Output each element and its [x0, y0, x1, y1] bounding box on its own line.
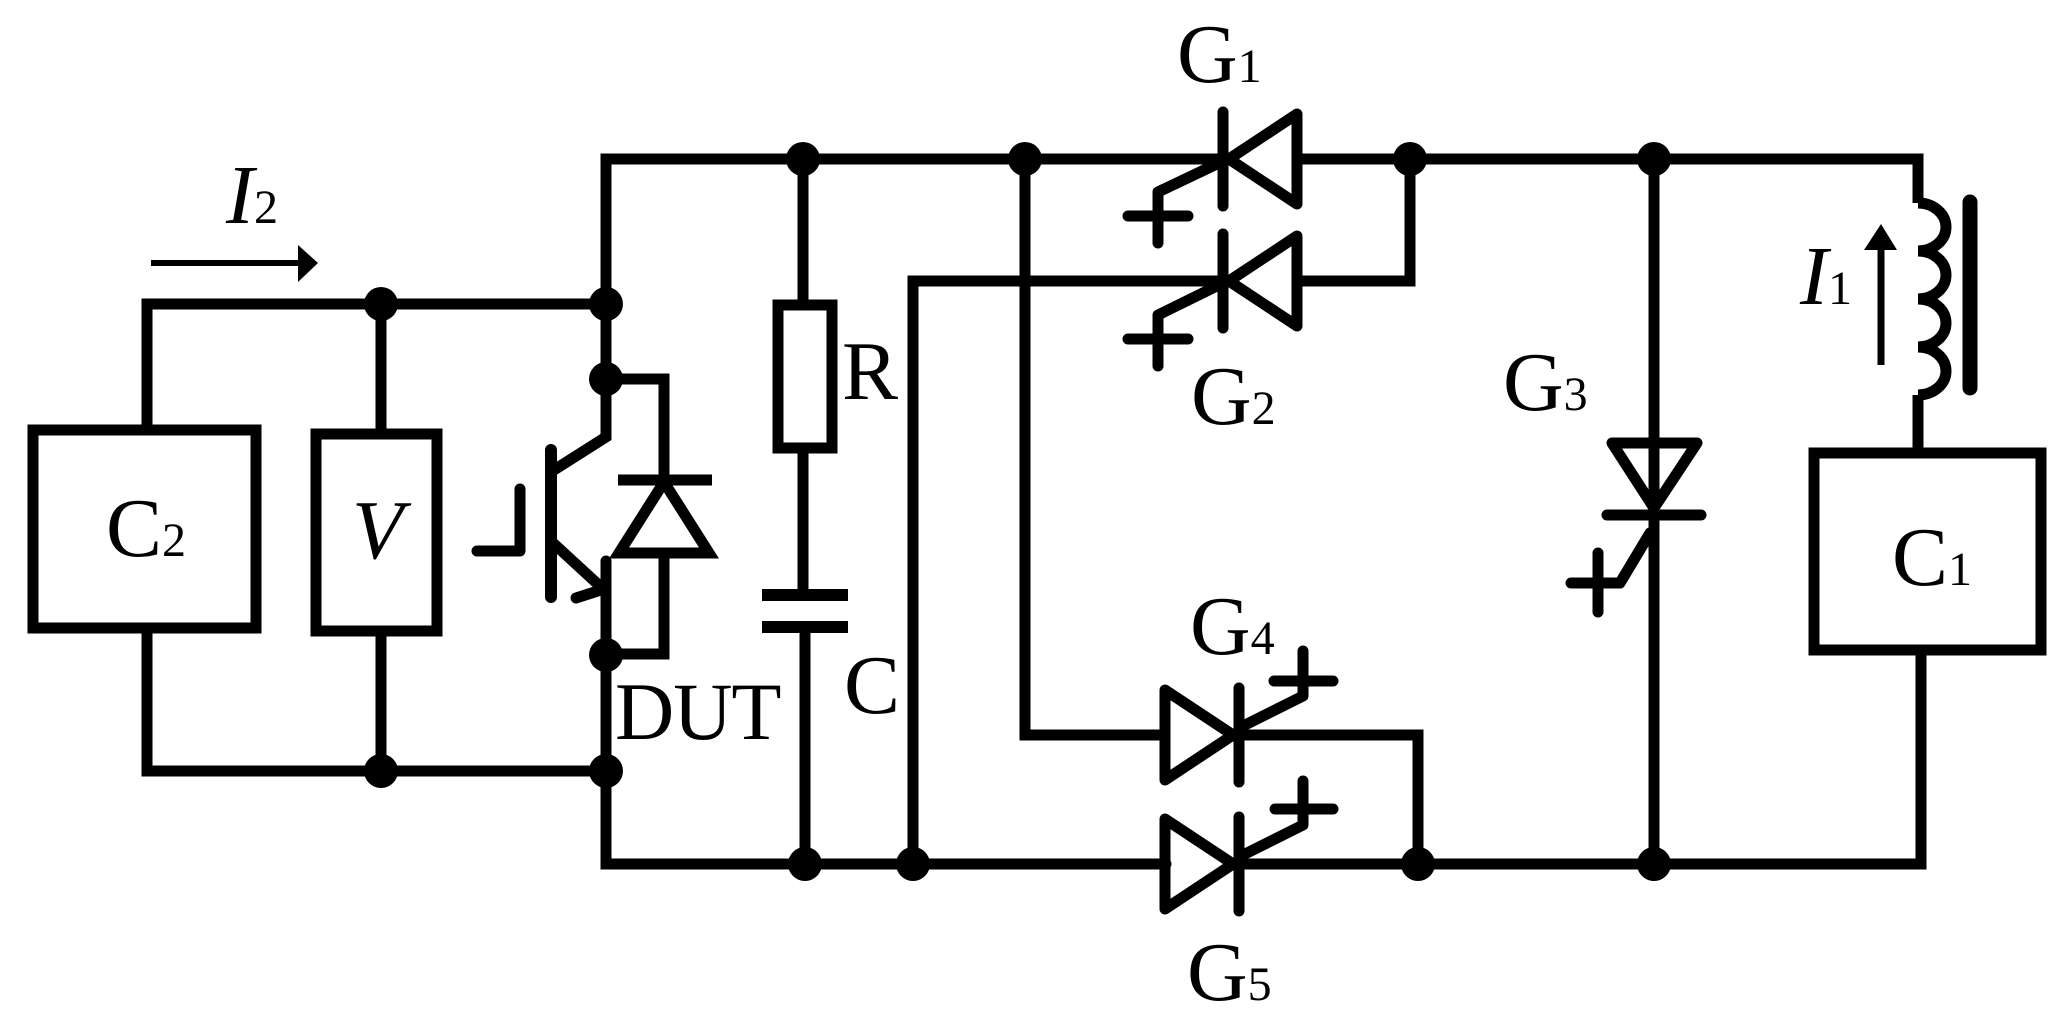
svg-text:V: V	[352, 484, 412, 577]
svg-text:DUT: DUT	[615, 666, 781, 757]
svg-text:C: C	[844, 639, 900, 732]
svg-text:R: R	[842, 325, 898, 418]
